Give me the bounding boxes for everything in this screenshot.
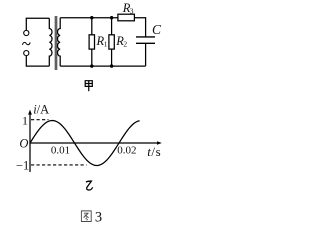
label 乙 (drawn strokes) bbox=[86, 181, 93, 190]
resistor R2 branch wires bbox=[111, 18, 113, 66]
resistor R1 branch wires bbox=[91, 18, 93, 66]
terminal (top circle) bbox=[24, 30, 29, 35]
transformer secondary coil bbox=[57, 18, 60, 66]
junction dot bottom R2 bbox=[110, 64, 113, 67]
junction dot top R2 bbox=[110, 16, 113, 19]
svg-text:0.02: 0.02 bbox=[117, 145, 136, 157]
x-axis arrowhead bbox=[157, 141, 162, 145]
dashed level line -1 bbox=[31, 164, 87, 166]
wire: AC source loop left side bbox=[26, 18, 49, 30]
terminal (bottom circle) bbox=[24, 51, 29, 56]
wire: secondary bottom rail bbox=[60, 65, 145, 67]
svg-text:−1: −1 bbox=[16, 158, 29, 172]
junction dot top R1 bbox=[90, 16, 93, 19]
svg-text:t/s: t/s bbox=[147, 144, 161, 159]
svg-text:1: 1 bbox=[104, 39, 108, 48]
wire: AC source loop bottom bbox=[26, 56, 49, 66]
svg-text:i/A: i/A bbox=[33, 102, 49, 116]
resistor R2 (vertical box) bbox=[109, 35, 114, 49]
capacitor C plates bbox=[136, 37, 155, 43]
graph y-axis bbox=[29, 112, 31, 172]
resistor R3 (series, horizontal box) bbox=[118, 14, 134, 21]
dashed level line +1 bbox=[31, 119, 49, 121]
svg-text:2: 2 bbox=[123, 39, 127, 48]
svg-text:0.01: 0.01 bbox=[51, 145, 70, 157]
label 甲 (drawn strokes) bbox=[85, 81, 92, 92]
AC tilde symbol bbox=[22, 42, 30, 44]
junction dot bottom R1 bbox=[90, 64, 93, 67]
resistor R1 (vertical box) bbox=[89, 35, 94, 49]
y-axis arrowhead bbox=[28, 110, 32, 115]
wire: capacitor bottom to bottom rail bbox=[145, 43, 147, 66]
svg-text:1: 1 bbox=[22, 113, 28, 127]
svg-text:3: 3 bbox=[95, 210, 102, 226]
wire: secondary top rail bbox=[60, 17, 118, 19]
sine curve i(t) bbox=[30, 121, 140, 166]
caption 图 (drawn strokes) bbox=[81, 211, 91, 222]
svg-text:O: O bbox=[19, 137, 28, 151]
svg-text:C: C bbox=[152, 22, 162, 37]
wire: from R3 to top-right corner, down to capacitor bbox=[134, 18, 145, 37]
graph x-axis bbox=[30, 142, 158, 144]
transformer core (two lines) bbox=[55, 16, 57, 70]
transformer primary coil bbox=[49, 18, 52, 66]
svg-text:3: 3 bbox=[130, 7, 134, 16]
